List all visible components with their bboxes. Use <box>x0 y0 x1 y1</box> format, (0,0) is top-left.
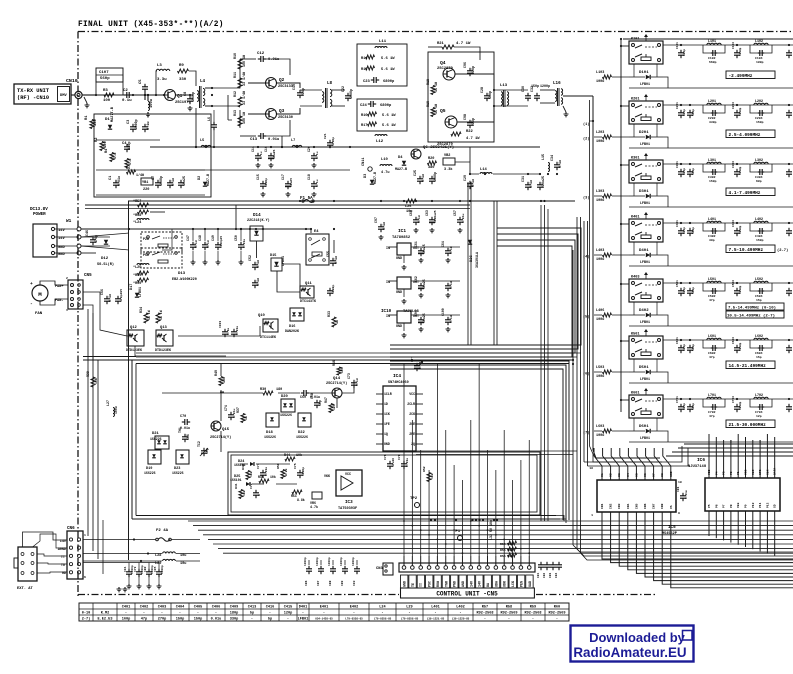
svg-text:2CLR: 2CLR <box>407 402 415 406</box>
regulator IC1 <box>386 243 460 263</box>
inductor L701 <box>703 393 725 418</box>
svg-text:8A: 8A <box>486 583 490 587</box>
resistor R46 <box>332 360 344 375</box>
svg-text:R16: R16 <box>361 114 367 118</box>
svg-text:P1: P1 <box>737 471 740 475</box>
off-page (2) <box>583 137 602 142</box>
trimmer YB1 220 <box>141 178 153 192</box>
svg-text:6.8: 6.8 <box>114 153 118 159</box>
svg-text:TT: TT <box>419 583 423 587</box>
transformer L16 <box>540 81 569 117</box>
relay K101 coil <box>644 34 648 41</box>
svg-text:-: - <box>532 618 534 622</box>
svg-text:CTT: CTT <box>410 356 414 362</box>
cap row6 d <box>786 398 792 412</box>
svg-text:D401: D401 <box>299 606 308 610</box>
capacitor C53 <box>252 278 260 288</box>
diode D4 <box>395 156 407 171</box>
EXT wires <box>23 532 68 573</box>
resistor R21 <box>428 42 480 60</box>
svg-text:R55 100: R55 100 <box>500 548 513 552</box>
svg-text:0.01u: 0.01u <box>461 214 465 223</box>
svg-text:68p: 68p <box>756 179 762 183</box>
svg-text:1FE: 1FE <box>384 422 390 426</box>
svg-text:*R60: *R60 <box>133 281 141 286</box>
CN5 drop wires <box>403 363 530 556</box>
svg-text:IN1: IN1 <box>601 503 604 509</box>
svg-text:GD: GD <box>62 572 66 576</box>
svg-text:D301: D301 <box>639 190 649 194</box>
svg-text:100 1W: 100 1W <box>242 55 246 67</box>
capacitor C58 <box>327 285 335 297</box>
svg-text:L602: L602 <box>755 334 763 338</box>
svg-text:C31: C31 <box>521 176 525 182</box>
svg-text:0.1u: 0.1u <box>122 99 132 103</box>
svg-text:C69: C69 <box>300 395 306 399</box>
row feed wire <box>663 339 793 341</box>
svg-text:M: M <box>38 291 42 298</box>
svg-text:*R57: *R57 <box>133 199 141 204</box>
svg-text:L79-0558-05: L79-0558-05 <box>401 618 419 621</box>
row feed wire <box>663 163 793 165</box>
resistor R15 <box>361 66 395 72</box>
svg-text:RadioAmateur.EU: RadioAmateur.EU <box>573 645 686 660</box>
svg-text:820p: 820p <box>683 168 686 175</box>
svg-text:100: 100 <box>340 367 344 373</box>
svg-text:1: 1 <box>66 308 68 312</box>
freq label row5a <box>726 303 784 311</box>
freq label row7 <box>726 420 775 428</box>
table row 0-10 <box>82 612 566 616</box>
svg-text:0.1u: 0.1u <box>256 278 260 286</box>
IC10 label <box>381 309 420 314</box>
svg-text:C68: C68 <box>310 393 314 399</box>
svg-text:Q15: Q15 <box>222 428 230 432</box>
svg-text:E402: E402 <box>350 606 359 610</box>
capacitor C1 <box>109 176 121 188</box>
CN5 label cells <box>401 575 534 588</box>
svg-text:SD: SD <box>774 504 777 508</box>
svg-text:1000p: 1000p <box>433 172 437 182</box>
svg-text:1k: 1k <box>335 320 339 324</box>
svg-text:L14: L14 <box>480 168 488 172</box>
svg-text:DTC143TK: DTC143TK <box>300 299 316 303</box>
capacitor C23 <box>363 77 395 84</box>
svg-text:1SS226: 1SS226 <box>150 437 162 441</box>
svg-text:33 1/4W: 33 1/4W <box>242 72 246 86</box>
svg-text:1000p: 1000p <box>739 166 742 175</box>
svg-text:1000p: 1000p <box>739 342 742 351</box>
main TX feed vertical <box>620 39 622 412</box>
svg-text:-: - <box>125 612 127 616</box>
cap row2 a <box>676 161 686 177</box>
svg-text:C61: C61 <box>414 241 418 247</box>
diode D101 <box>629 64 663 86</box>
capacitors C94 C79 C80 <box>83 563 164 589</box>
svg-text:L701: L701 <box>708 393 716 397</box>
svg-text:C29: C29 <box>463 175 467 181</box>
transistor Q10 <box>258 314 278 339</box>
svg-text:TE: TE <box>411 583 415 587</box>
svg-text:VCC: VCC <box>345 472 351 476</box>
control inner box <box>228 452 540 515</box>
resistor R4 <box>105 148 118 162</box>
svg-text:(5): (5) <box>583 315 589 320</box>
svg-text:2SC2879: 2SC2879 <box>437 67 454 71</box>
resistor R57 <box>133 199 165 207</box>
svg-text:820p: 820p <box>683 344 686 351</box>
svg-text:1000p: 1000p <box>739 47 742 56</box>
cap row4 c <box>732 280 742 296</box>
op-amp IC3 <box>324 470 362 496</box>
svg-text:L7: L7 <box>291 139 295 143</box>
svg-text:10u25: 10u25 <box>182 176 186 186</box>
svg-text:IN2: IN2 <box>610 503 613 509</box>
svg-text:Q12: Q12 <box>130 326 138 330</box>
capacitor C24 <box>360 101 392 108</box>
wire L16 to filters <box>563 95 593 97</box>
diode D21 <box>150 432 169 449</box>
svg-text:C98: C98 <box>463 114 467 120</box>
svg-text:C18: C18 <box>307 174 311 180</box>
svg-text:2SC2714(Y): 2SC2714(Y) <box>326 381 347 386</box>
svg-text:1000p: 1000p <box>304 557 307 566</box>
cap row2 d <box>786 163 792 177</box>
capacitor C63 <box>425 210 437 225</box>
inductor L402 <box>750 217 772 242</box>
svg-text:C703: C703 <box>732 396 735 403</box>
svg-text:C87: C87 <box>317 580 320 586</box>
svg-text:15p: 15p <box>756 355 762 359</box>
svg-text:0.1u: 0.1u <box>471 179 475 187</box>
transformer L4 <box>176 79 212 108</box>
capacitor C64 <box>441 241 453 256</box>
svg-text:D20: D20 <box>281 395 289 399</box>
inductor L603 <box>596 425 629 438</box>
relay E4 box <box>306 230 329 265</box>
resistor R47 <box>324 397 336 412</box>
svg-text:R57: R57 <box>482 606 488 610</box>
resistor R58b <box>276 463 288 478</box>
capacitors C86-C93 <box>304 557 360 586</box>
svg-text:10u: 10u <box>180 562 186 566</box>
border frame left <box>77 32 79 597</box>
svg-text:18: 18 <box>589 466 593 470</box>
input network box <box>94 114 211 197</box>
diode D25 <box>230 475 250 486</box>
svg-text:(7): (7) <box>583 431 589 436</box>
svg-text:470p20V: 470p20V <box>119 289 123 302</box>
svg-text:AND: AND <box>461 581 465 587</box>
svg-text:C88: C88 <box>329 580 332 586</box>
svg-text:054-1420-05: 054-1420-05 <box>315 618 333 621</box>
svg-text:R34: R34 <box>139 307 143 313</box>
capacitor C65 <box>445 281 453 291</box>
svg-text:VSS: VSS <box>745 469 748 475</box>
svg-text:1000p: 1000p <box>739 285 742 294</box>
svg-text:L401: L401 <box>708 217 716 221</box>
svg-text:VKK: VKK <box>324 474 330 478</box>
svg-text:1/4W: 1/4W <box>136 173 144 177</box>
capacitor C18 <box>307 174 319 189</box>
inductor L301 <box>703 158 725 183</box>
capacitor C72 <box>249 483 261 498</box>
IC5 label <box>662 525 677 536</box>
svg-text:R10: R10 <box>233 53 237 59</box>
svg-text:C406: C406 <box>212 606 221 610</box>
svg-text:C70: C70 <box>180 415 186 419</box>
relay K501 <box>620 333 663 360</box>
cap row0 c <box>732 42 742 58</box>
svg-text:L402: L402 <box>755 217 763 221</box>
resistor R44 <box>284 453 302 461</box>
svg-text:P8: P8 <box>730 504 733 508</box>
diode D22 <box>296 413 311 439</box>
capacitor C52 <box>248 255 260 270</box>
svg-text:L103: L103 <box>596 71 604 75</box>
inductor L5 <box>200 139 211 147</box>
inductor L103 <box>596 71 629 84</box>
relay K301 coil <box>644 153 648 160</box>
svg-text:10u25: 10u25 <box>422 244 426 254</box>
capacitor C22 <box>341 86 353 101</box>
svg-text:R92-2569: R92-2569 <box>548 612 565 616</box>
capacitor C13 <box>240 120 290 142</box>
svg-text:IC6: IC6 <box>697 457 705 463</box>
resistor R37 <box>236 407 248 422</box>
svg-text:9: 9 <box>678 511 680 515</box>
svg-text:D14: D14 <box>253 213 261 218</box>
diode D401 <box>629 242 663 264</box>
svg-text:R9: R9 <box>179 64 184 68</box>
svg-text:10k: 10k <box>249 471 253 477</box>
cap row3 c <box>732 220 742 236</box>
svg-text:1000p: 1000p <box>739 225 742 234</box>
svg-text:-: - <box>269 612 271 616</box>
svg-text:1000p: 1000p <box>739 401 742 410</box>
wire Q13 to D16 <box>178 326 260 336</box>
svg-text:CLK: CLK <box>766 469 769 475</box>
svg-text:R51: R51 <box>291 494 297 498</box>
capacitor C70 <box>180 415 190 430</box>
svg-text:VEE: VEE <box>737 502 740 508</box>
svg-text:IC10: IC10 <box>381 309 392 314</box>
svg-text:14.5-21.499MHz: 14.5-21.499MHz <box>729 363 767 369</box>
IC6 box <box>705 478 780 511</box>
diode D23 <box>172 450 189 475</box>
ground symbols <box>146 106 463 338</box>
svg-text:820p: 820p <box>683 287 686 294</box>
svg-text:0.1u: 0.1u <box>417 215 421 223</box>
IC4 box <box>383 373 416 451</box>
svg-text:EB2-W100K220: EB2-W100K220 <box>172 278 197 282</box>
svg-text:0.01u: 0.01u <box>117 176 121 186</box>
inductor L6 <box>207 110 217 147</box>
svg-text:IC3: IC3 <box>345 500 353 505</box>
test point TP1 <box>453 530 463 541</box>
svg-text:CN11: CN11 <box>362 157 366 166</box>
svg-text:R14: R14 <box>361 57 368 61</box>
svg-text:8.8k: 8.8k <box>297 498 305 502</box>
svg-text:1SS226: 1SS226 <box>172 471 184 475</box>
svg-text:820p: 820p <box>683 49 686 56</box>
resistor R60 <box>133 278 149 286</box>
svg-text:D401: D401 <box>639 249 649 253</box>
relay P5D box <box>141 248 182 268</box>
band select vertical <box>590 96 663 462</box>
svg-text:-: - <box>408 612 410 616</box>
top output wire <box>620 38 793 40</box>
svg-text:0: 0 <box>257 494 261 496</box>
diode D601 <box>629 418 663 440</box>
resistor R18 <box>426 79 438 95</box>
svg-text:CLR: CLR <box>752 469 755 475</box>
svg-text:L6: L6 <box>207 117 211 121</box>
svg-text:5.6 1W: 5.6 1W <box>382 114 396 118</box>
svg-text:R1: R1 <box>85 115 89 120</box>
svg-text:GND: GND <box>396 324 402 328</box>
relay K401 <box>620 216 663 243</box>
svg-text:5.6 1W: 5.6 1W <box>381 57 395 61</box>
capacitor C4 <box>122 141 132 152</box>
svg-text:R42: R42 <box>241 464 245 470</box>
inductor L201 <box>703 99 725 124</box>
svg-text:1SS226: 1SS226 <box>264 435 276 439</box>
svg-text:L39-1220-05: L39-1220-05 <box>452 618 470 621</box>
svg-text:0.1u: 0.1u <box>529 180 533 188</box>
svg-text:VS: VS <box>670 505 673 509</box>
capacitor C14 <box>251 146 263 161</box>
svg-text:R33: R33 <box>327 311 331 317</box>
IC6 top feeds <box>709 434 775 443</box>
svg-text:4.1-7.499MHz: 4.1-7.499MHz <box>729 190 761 196</box>
capacitor C61 <box>414 241 426 256</box>
svg-text:C46: C46 <box>85 230 89 236</box>
svg-text:R21: R21 <box>437 42 445 46</box>
transistor Q11 <box>300 282 316 303</box>
svg-text:1CLR: 1CLR <box>384 392 392 396</box>
svg-text:C203: C203 <box>732 102 735 109</box>
svg-text:10k: 10k <box>270 475 276 479</box>
svg-text:L39-1221-05: L39-1221-05 <box>427 618 445 621</box>
thermistor TH1 <box>178 427 190 442</box>
inductor L203 <box>596 131 629 144</box>
svg-text:Downloaded by: Downloaded by <box>589 630 686 645</box>
svg-text:FAN: FAN <box>35 312 43 316</box>
capacitor C16 <box>264 146 276 161</box>
svg-text:180: 180 <box>276 388 282 392</box>
relay K403 <box>620 276 663 303</box>
resistor R58 <box>133 210 165 218</box>
svg-text:0-10: 0-10 <box>82 612 91 616</box>
svg-text:0.1u: 0.1u <box>449 281 453 289</box>
svg-text:C603: C603 <box>732 337 735 344</box>
svg-text:1000p: 1000p <box>191 92 195 102</box>
svg-text:0.1u: 0.1u <box>421 174 425 182</box>
svg-text:PND: PND <box>453 581 457 587</box>
svg-text:(3): (3) <box>583 196 589 201</box>
svg-text:1000p: 1000p <box>349 89 353 99</box>
svg-text:10u: 10u <box>180 554 186 558</box>
inductor L303 <box>596 190 629 203</box>
svg-text:R20: R20 <box>428 157 434 161</box>
svg-text:1Q: 1Q <box>384 432 388 436</box>
svg-text:C93: C93 <box>353 580 356 586</box>
svg-text:220: 220 <box>143 188 149 192</box>
svg-text:100u: 100u <box>596 199 604 203</box>
svg-text:LFB01: LFB01 <box>640 320 650 324</box>
capacitor C12 <box>240 52 290 75</box>
svg-text:7.5-10.499MHz: 7.5-10.499MHz <box>729 247 764 253</box>
capacitor C49 <box>211 229 223 265</box>
svg-text:D1: D1 <box>105 118 110 122</box>
svg-text:-: - <box>353 612 355 616</box>
capacitors C81-C84 <box>537 562 562 578</box>
svg-text:4.7k: 4.7k <box>310 505 318 509</box>
capacitor C55 <box>326 251 338 266</box>
svg-text:IN7: IN7 <box>653 503 656 509</box>
amp mid bus <box>150 108 540 170</box>
diode D15 <box>270 254 285 271</box>
svg-text:0.1u: 0.1u <box>108 294 112 302</box>
svg-text:TNR: TNR <box>444 581 448 587</box>
inductor L406 <box>596 309 629 322</box>
svg-text:R17: R17 <box>361 124 367 128</box>
row feed wire <box>663 222 793 224</box>
inductor choke 100u <box>146 95 155 117</box>
IC5 top angle wires <box>594 448 671 466</box>
svg-text:L13: L13 <box>500 84 508 88</box>
svg-text:10u25: 10u25 <box>290 178 293 187</box>
diode D3 <box>364 172 377 184</box>
svg-text:O5: O5 <box>634 473 638 477</box>
freq label row6 <box>726 361 775 369</box>
svg-text:R13: R13 <box>233 110 237 116</box>
svg-text:IC5: IC5 <box>668 525 676 530</box>
svg-text:R30: R30 <box>260 388 266 392</box>
svg-text:L301: L301 <box>708 158 716 162</box>
svg-text:PSC: PSC <box>428 581 432 587</box>
diode D16 <box>285 308 304 333</box>
svg-text:5.6 1W: 5.6 1W <box>382 124 396 128</box>
svg-text:P10: P10 <box>752 502 755 508</box>
svg-text:AGND: AGND <box>58 548 66 552</box>
svg-text:C415: C415 <box>284 606 293 610</box>
svg-text:R60: R60 <box>554 606 560 610</box>
svg-text:C405: C405 <box>194 606 203 610</box>
svg-text:1000p: 1000p <box>316 557 319 566</box>
inductor L202 <box>750 99 772 124</box>
svg-text:CN3: CN3 <box>376 567 384 571</box>
svg-text:-: - <box>459 612 461 616</box>
svg-text:7.5-14.499MHz (0-10): 7.5-14.499MHz (0-10) <box>728 306 776 311</box>
svg-text:P2D: P2D <box>143 237 149 241</box>
svg-text:-: - <box>381 612 383 616</box>
IC6 pins <box>708 440 777 524</box>
svg-text:TX-RX UNIT: TX-RX UNIT <box>17 88 50 94</box>
label DC13.8V POWER <box>30 207 48 217</box>
svg-text:*R59: *R59 <box>133 273 141 278</box>
capacitor C77 <box>410 356 422 371</box>
cap row4 b <box>687 282 695 296</box>
diode D20 <box>280 395 295 417</box>
RadioAmateur badge <box>571 626 694 662</box>
transistor Q5 <box>437 108 457 147</box>
svg-text:TC2: TC2 <box>197 441 201 447</box>
resistor R38 <box>86 371 98 387</box>
transistor Q2 <box>248 77 293 89</box>
control box outer <box>83 357 574 524</box>
